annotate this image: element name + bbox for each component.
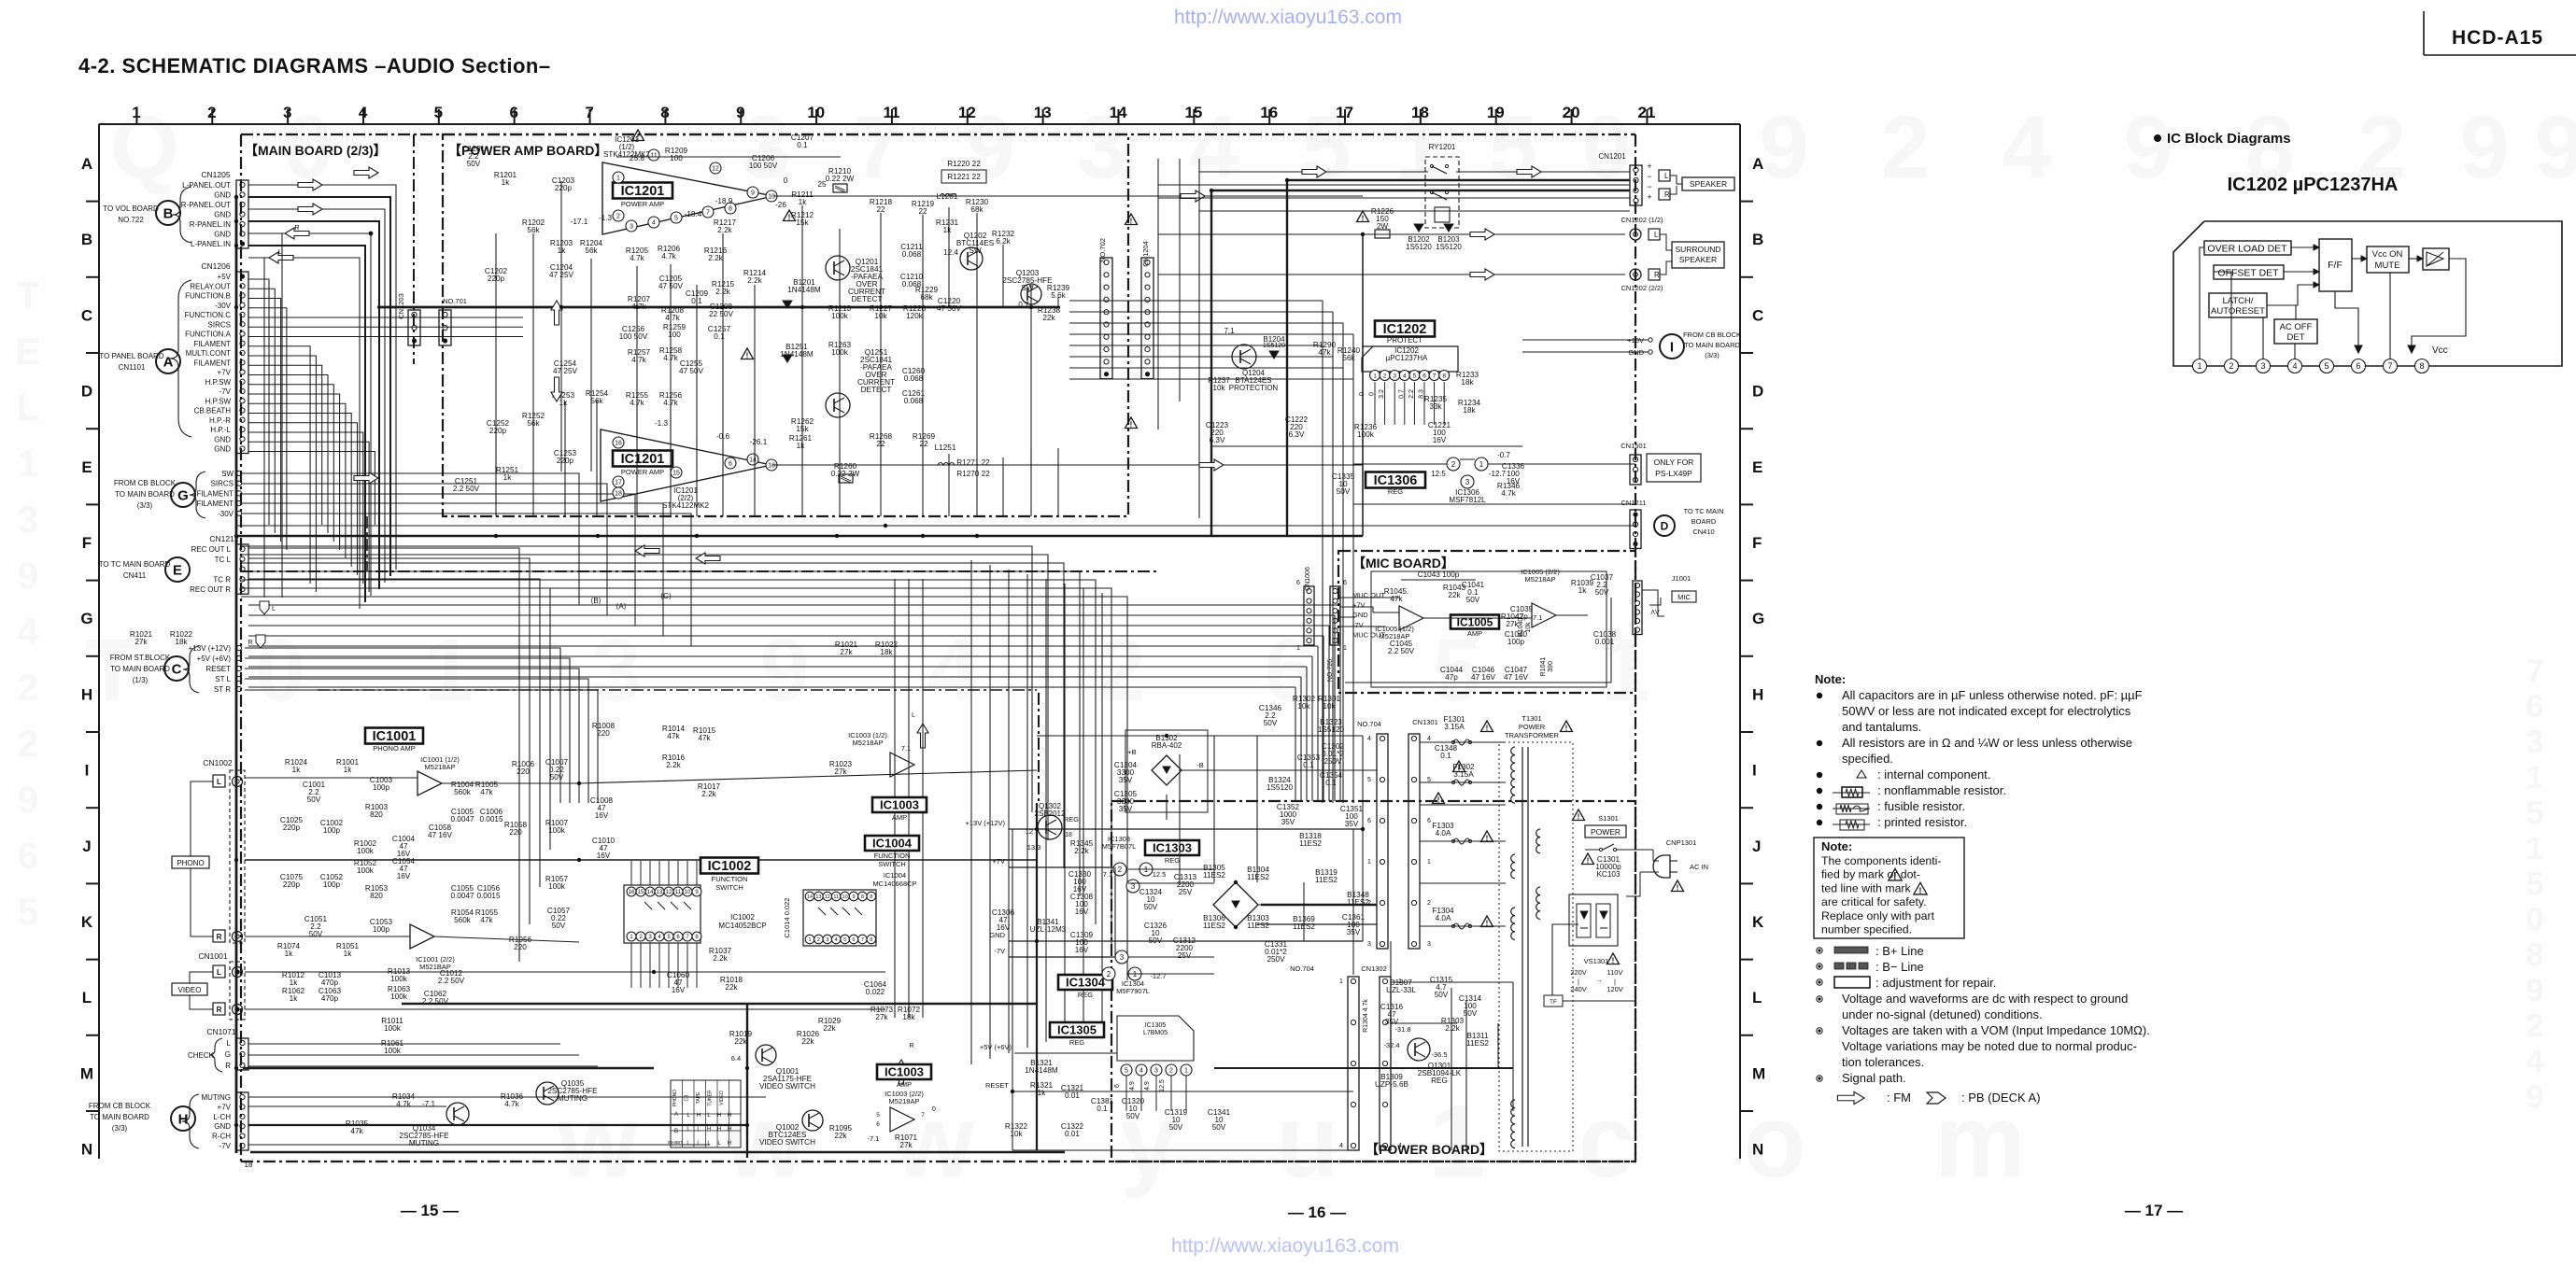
wire xyxy=(668,861,670,885)
grid row tick left xyxy=(86,428,99,429)
wire GND 1 xyxy=(248,197,390,576)
svg-text:L-PANEL.IN: L-PANEL.IN xyxy=(191,240,231,248)
svg-text:1: 1 xyxy=(2526,760,2544,795)
wire L-PANEL.IN xyxy=(248,258,360,609)
grid column tick xyxy=(1420,109,1422,124)
svg-text:7: 7 xyxy=(861,937,864,943)
wire xyxy=(248,299,281,542)
svg-text:47k: 47k xyxy=(1318,348,1331,357)
wire xyxy=(560,181,562,307)
svg-text:(3/3): (3/3) xyxy=(1705,351,1720,359)
IC1201 pin 12 xyxy=(710,162,721,174)
svg-text:3: 3 xyxy=(1427,941,1431,948)
svg-text:TC R: TC R xyxy=(213,575,231,584)
grid column tick xyxy=(438,109,440,124)
diode bridge 11ES2 xyxy=(1213,882,1258,927)
wire xyxy=(590,307,592,472)
svg-text:-18.4: -18.4 xyxy=(685,210,702,218)
wire xyxy=(686,861,688,885)
dash corner vertical xyxy=(366,516,368,571)
svg-text:50V: 50V xyxy=(1464,1009,1478,1018)
svg-text:LATCH/: LATCH/ xyxy=(2222,296,2253,306)
svg-text:0: 0 xyxy=(2526,902,2544,937)
IC1202 pin 6 xyxy=(1420,371,1430,381)
svg-text:H.P.-R: H.P.-R xyxy=(209,416,231,425)
svg-text:8: 8 xyxy=(2419,361,2424,371)
video R jack box xyxy=(213,1003,225,1015)
svg-text:16V: 16V xyxy=(397,872,411,880)
svg-text:100p: 100p xyxy=(323,880,341,889)
IC1004 pin bottom 8 xyxy=(867,935,876,944)
wire xyxy=(1125,1076,1127,1111)
svg-text:47k: 47k xyxy=(350,1127,363,1135)
IC1305 pin 2 xyxy=(1166,1064,1177,1076)
surround L box xyxy=(1649,229,1660,240)
svg-text:2: 2 xyxy=(18,724,38,765)
svg-text:The components identi-: The components identi- xyxy=(1821,854,1942,867)
wire xyxy=(1256,736,1258,882)
svg-text:IC1004: IC1004 xyxy=(884,871,906,880)
svg-text:-7.1: -7.1 xyxy=(422,1100,436,1108)
svg-text:!: ! xyxy=(1612,957,1615,965)
svg-text:RY1201: RY1201 xyxy=(1429,143,1456,151)
svg-text:50V: 50V xyxy=(552,922,566,930)
svg-text:G: G xyxy=(177,487,189,503)
R1220 R1221 parallel loop xyxy=(941,170,986,183)
IC1002 switch contacts xyxy=(644,902,652,909)
svg-text:2: 2 xyxy=(2229,361,2233,371)
svg-text:11: 11 xyxy=(675,890,682,895)
svg-text:DETECT: DETECT xyxy=(852,295,883,303)
svg-text:820: 820 xyxy=(370,892,383,900)
svg-text:220p: 220p xyxy=(283,824,301,832)
svg-text:G: G xyxy=(80,610,92,627)
note B- line xyxy=(1817,964,1822,969)
chevron L arrow xyxy=(260,601,269,614)
warn triangle 4 xyxy=(1125,214,1138,225)
wire xyxy=(248,414,351,568)
IC1003 label box xyxy=(872,797,927,812)
svg-text:u: u xyxy=(1276,1084,1338,1199)
svg-text:(1/3): (1/3) xyxy=(133,676,149,684)
MIC BOARD outline xyxy=(1338,551,1635,693)
svg-text:2.2k: 2.2k xyxy=(666,761,681,769)
svg-text:5: 5 xyxy=(1413,373,1417,379)
svg-text:R1220 22: R1220 22 xyxy=(947,160,981,168)
svg-text:TO MAIN BOARD: TO MAIN BOARD xyxy=(110,665,170,673)
grid row tick right xyxy=(1740,201,1753,203)
video jack wires xyxy=(190,972,213,983)
wire xyxy=(696,307,698,472)
svg-text:!: ! xyxy=(1130,421,1133,429)
svg-text:: B− Line: : B− Line xyxy=(1875,960,1924,974)
warn C1301 xyxy=(1582,853,1594,865)
diode B1201 xyxy=(783,301,792,308)
wire xyxy=(1443,382,1445,425)
svg-text:MUC OUT: MUC OUT xyxy=(1352,591,1385,599)
svg-text:1k: 1k xyxy=(290,994,299,1003)
svg-text:11ES2: 11ES2 xyxy=(1203,922,1225,930)
wire xyxy=(696,285,698,307)
svg-text:FROM ST.BLOCK: FROM ST.BLOCK xyxy=(110,654,171,662)
svg-text:Voltage and waveforms are dc w: Voltage and waveforms are dc with respec… xyxy=(1842,992,2128,1006)
grid row tick right xyxy=(1740,276,1753,278)
IC1305 label box xyxy=(1050,1022,1104,1037)
fuse F1303 xyxy=(1453,838,1470,844)
wire xyxy=(1257,923,1377,925)
svg-text:J: J xyxy=(82,838,91,855)
svg-text:MSF7812L: MSF7812L xyxy=(1449,496,1486,504)
wire xyxy=(1342,323,1344,803)
svg-text:16: 16 xyxy=(629,890,635,895)
IC1001 label box xyxy=(365,728,423,744)
note nonflammable resistor symbol xyxy=(1817,788,1822,794)
IC1002 pin 4 xyxy=(655,932,664,941)
wire R-PANEL.OUT xyxy=(248,209,385,583)
block pin 3 xyxy=(2257,359,2271,373)
svg-text:REC OUT L: REC OUT L xyxy=(191,545,231,554)
svg-text:9: 9 xyxy=(18,556,38,597)
svg-text:7.1: 7.1 xyxy=(1224,327,1235,335)
svg-text:100k: 100k xyxy=(357,847,375,855)
block pin 6 xyxy=(2352,359,2366,373)
wire xyxy=(1030,285,1032,307)
wire xyxy=(649,943,651,988)
warn triangle 2 xyxy=(784,210,796,221)
wire xyxy=(894,579,896,1018)
svg-text:10k: 10k xyxy=(1297,702,1310,711)
svg-text:0.068: 0.068 xyxy=(904,374,924,383)
svg-text:B: B xyxy=(81,231,92,248)
svg-text:HCD-A15: HCD-A15 xyxy=(2452,27,2543,49)
svg-text:6: 6 xyxy=(1343,580,1347,586)
svg-text:CN1501: CN1501 xyxy=(1621,442,1647,450)
svg-text:10: 10 xyxy=(842,894,848,900)
IC1004 pin bottom 2 xyxy=(814,935,824,944)
svg-text:B: B xyxy=(163,205,174,221)
svg-text:PHONO AMP: PHONO AMP xyxy=(373,744,415,753)
wire R-PANEL.IN xyxy=(248,233,371,596)
grid column tick xyxy=(1495,109,1497,124)
svg-text:N: N xyxy=(1752,1141,1763,1159)
wire xyxy=(658,943,660,988)
svg-text:REG: REG xyxy=(1069,1038,1084,1047)
svg-text:1k: 1k xyxy=(503,473,513,482)
IC1306 wires xyxy=(1353,463,1447,465)
svg-text:+5V (+6V): +5V (+6V) xyxy=(197,655,232,663)
grid column tick xyxy=(815,109,817,124)
mid dash separator xyxy=(318,689,1037,691)
IC1004 pin top 13 xyxy=(814,892,824,901)
svg-text:!: ! xyxy=(788,214,791,222)
svg-text:-7.1: -7.1 xyxy=(868,1134,880,1143)
svg-text:VIDEO: VIDEO xyxy=(719,1091,725,1105)
svg-text:3: 3 xyxy=(1465,478,1470,486)
svg-text:R-CH: R-CH xyxy=(212,1133,231,1141)
svg-text:0.1: 0.1 xyxy=(1303,761,1314,769)
svg-text:TO TC MAIN BOARD: TO TC MAIN BOARD xyxy=(99,560,171,569)
circled G from cb block xyxy=(171,483,195,507)
IC1201 pin 10 xyxy=(766,190,777,202)
svg-text:D: D xyxy=(1752,383,1763,401)
IC1004 switch contacts xyxy=(818,908,826,915)
mute amp box xyxy=(2423,248,2449,270)
svg-text:http://www.xiaoyu163.com: http://www.xiaoyu163.com xyxy=(1171,1235,1399,1257)
svg-text:2.2 50V: 2.2 50V xyxy=(1388,647,1415,655)
AC OFF DET box xyxy=(2274,319,2317,344)
arrow surround 1 xyxy=(1470,229,1494,240)
svg-text:220: 220 xyxy=(514,943,527,951)
svg-text:4.7k: 4.7k xyxy=(630,254,644,262)
grid row tick left xyxy=(86,580,99,582)
svg-text:ΛV: ΛV xyxy=(1650,610,1660,616)
speaker L box xyxy=(1659,170,1670,181)
power switch symbol xyxy=(1585,849,1600,851)
op-amp IC1201 2/2 triangle xyxy=(601,429,771,501)
note fusible resistor symbol xyxy=(1817,804,1822,809)
wire xyxy=(532,422,534,516)
svg-text:STK4122MK2: STK4122MK2 xyxy=(662,501,709,510)
svg-text:13: 13 xyxy=(657,890,663,895)
svg-text:10k: 10k xyxy=(874,312,887,320)
svg-text:H.P.-L: H.P.-L xyxy=(210,426,231,434)
wire xyxy=(1155,1076,1157,1111)
svg-text:9: 9 xyxy=(751,190,755,197)
wire xyxy=(1390,941,1392,1068)
svg-text:100: 100 xyxy=(670,154,683,162)
svg-text:L: L xyxy=(217,968,221,977)
svg-text:0.0047: 0.0047 xyxy=(450,815,474,824)
fuse F1302 xyxy=(1453,780,1470,785)
svg-text:【MIC BOARD】: 【MIC BOARD】 xyxy=(1352,556,1454,570)
svg-text:27k: 27k xyxy=(834,767,847,776)
svg-text:0.0015: 0.0015 xyxy=(476,892,500,900)
svg-text:: printed resistor.: : printed resistor. xyxy=(1877,815,1967,829)
grid row tick right xyxy=(1740,352,1753,354)
wire xyxy=(696,439,698,516)
svg-text:4.7k: 4.7k xyxy=(504,1100,519,1108)
svg-text:1k: 1k xyxy=(799,198,808,206)
svg-text:CN1301: CN1301 xyxy=(1412,718,1438,726)
svg-text:4.7k: 4.7k xyxy=(396,1100,411,1108)
wire xyxy=(1322,301,1323,803)
svg-text:AUTORESET: AUTORESET xyxy=(2211,306,2265,317)
svg-text:5: 5 xyxy=(18,892,38,933)
IC1002 pin 11 xyxy=(673,887,683,896)
svg-text:22k: 22k xyxy=(734,1037,747,1046)
svg-text:IC Block Diagrams: IC Block Diagrams xyxy=(2167,131,2291,147)
svg-text:120V: 120V xyxy=(1606,985,1623,993)
warn triangle 3 xyxy=(742,348,754,359)
svg-text:FILAMENT: FILAMENT xyxy=(196,489,234,498)
wire xyxy=(1069,333,1353,335)
wire xyxy=(1420,781,1506,783)
circled B to vol board xyxy=(156,201,180,225)
svg-text:MUTING: MUTING xyxy=(558,1094,587,1103)
up arrow xyxy=(551,301,562,325)
feedback top wire xyxy=(616,156,841,158)
block pin 1 xyxy=(2193,359,2207,373)
svg-text:4: 4 xyxy=(652,220,656,227)
IC1002 pin 16 xyxy=(627,887,636,896)
svg-text:50V: 50V xyxy=(1435,991,1449,999)
LATCH AUTORESET box xyxy=(2209,293,2267,317)
svg-text:SWITCH: SWITCH xyxy=(878,860,906,868)
svg-text:14: 14 xyxy=(749,458,757,464)
svg-text:VIDEO SWITCH: VIDEO SWITCH xyxy=(759,1138,815,1147)
svg-text:!: ! xyxy=(1919,886,1922,895)
svg-text:GND: GND xyxy=(989,931,1005,939)
wire xyxy=(1413,382,1415,425)
svg-text:470p: 470p xyxy=(321,994,339,1003)
IC1202 block outline xyxy=(2173,221,2562,366)
svg-text:POWER AMP: POWER AMP xyxy=(621,468,664,476)
note line xyxy=(1817,1076,1822,1081)
svg-text:1S5120: 1S5120 xyxy=(1267,783,1294,792)
IC1303 label box xyxy=(1145,840,1199,855)
svg-text:2.2k: 2.2k xyxy=(708,254,723,262)
svg-text:A: A xyxy=(1752,155,1763,173)
wire xyxy=(922,579,924,1018)
svg-text:M5F7907L: M5F7907L xyxy=(1116,987,1150,995)
svg-text:TO MAIN BOARD: TO MAIN BOARD xyxy=(115,490,175,499)
svg-text:1: 1 xyxy=(1339,978,1343,985)
svg-text:R: R xyxy=(217,933,222,941)
svg-text:M5218AP: M5218AP xyxy=(889,1097,920,1105)
wire xyxy=(1362,736,1364,941)
svg-text:14: 14 xyxy=(807,894,813,900)
svg-text:5: 5 xyxy=(2526,866,2544,902)
svg-text:M5218AP: M5218AP xyxy=(853,739,884,747)
svg-text:SWITCH: SWITCH xyxy=(715,883,743,892)
wire xyxy=(242,503,663,636)
svg-text:ted line with mark: ted line with mark xyxy=(1821,881,1912,894)
power board wires right xyxy=(1391,981,1513,983)
voltage selector VS1301 xyxy=(1569,894,1618,946)
svg-text:100k: 100k xyxy=(1357,430,1375,439)
svg-text:S1301: S1301 xyxy=(1598,814,1619,823)
SURROUND SPEAKER box xyxy=(1672,242,1724,268)
wire xyxy=(922,215,924,307)
Q1301 transistor xyxy=(1408,1038,1430,1061)
HCD-A15 model corner box xyxy=(2423,11,2425,55)
svg-text:47 50V: 47 50V xyxy=(658,282,683,290)
svg-text:-26: -26 xyxy=(775,201,786,209)
svg-text:-7V: -7V xyxy=(1352,621,1364,629)
svg-text:: fusible resistor.: : fusible resistor. xyxy=(1877,799,1965,813)
svg-text:47k: 47k xyxy=(480,788,493,796)
svg-text:L-PANEL.OUT: L-PANEL.OUT xyxy=(182,181,231,190)
wire xyxy=(248,645,1318,647)
svg-text:CN1203: CN1203 xyxy=(397,293,405,319)
svg-text:RBA-402: RBA-402 xyxy=(1152,741,1182,750)
svg-text:H.P.SW: H.P.SW xyxy=(205,378,232,387)
svg-text:4: 4 xyxy=(1139,1068,1143,1075)
svg-text:INHIBIT: INHIBIT xyxy=(668,1140,683,1145)
svg-text:100p: 100p xyxy=(373,783,390,792)
svg-text:4.7k: 4.7k xyxy=(663,399,678,407)
svg-text:IC1003: IC1003 xyxy=(880,798,919,812)
svg-text:3: 3 xyxy=(1154,1068,1158,1075)
svg-text:R: R xyxy=(225,1062,231,1070)
wire relay to CN1201 1 xyxy=(1456,171,1630,173)
svg-text:IC1201: IC1201 xyxy=(621,184,665,199)
IC1002 pin 3 xyxy=(645,932,655,941)
center thick vertical bus xyxy=(746,1004,748,1158)
svg-text:4.7k: 4.7k xyxy=(630,399,644,407)
svg-text:FILAMENT: FILAMENT xyxy=(193,340,231,348)
wire xyxy=(1069,322,1343,324)
svg-text:-36.5: -36.5 xyxy=(1431,1050,1447,1059)
svg-text:100p: 100p xyxy=(1507,638,1525,646)
wire xyxy=(1030,448,1032,516)
wire xyxy=(242,484,607,615)
svg-text:22: 22 xyxy=(876,205,885,214)
svg-text:100k: 100k xyxy=(831,348,849,357)
grid row tick left xyxy=(86,655,99,657)
svg-text:56k: 56k xyxy=(1342,354,1355,362)
output wire lower xyxy=(771,464,1363,466)
svg-text:5: 5 xyxy=(2526,795,2544,831)
svg-text:A: A xyxy=(163,354,174,370)
svg-text:!: ! xyxy=(1362,215,1365,223)
svg-text:1: 1 xyxy=(1343,645,1347,652)
IC1305 pin 4 xyxy=(1136,1064,1147,1076)
svg-text:3: 3 xyxy=(630,224,633,231)
svg-text:6: 6 xyxy=(876,1121,880,1128)
svg-text:-B: -B xyxy=(1196,761,1204,769)
svg-text:R-PANEL.IN: R-PANEL.IN xyxy=(190,220,232,229)
grid column tick xyxy=(514,109,516,124)
wire xyxy=(1332,312,1334,803)
svg-text:: adjustment for repair.: : adjustment for repair. xyxy=(1875,976,1996,990)
wire xyxy=(1128,956,1214,958)
svg-text:D: D xyxy=(81,383,92,401)
grid row tick right xyxy=(1740,1035,1753,1036)
wire xyxy=(245,648,560,803)
wire xyxy=(248,686,1295,688)
IC1201 pin 6 xyxy=(725,458,736,469)
svg-text:→: → xyxy=(1595,976,1603,984)
svg-text:4: 4 xyxy=(835,937,838,943)
svg-text:REC OUT R: REC OUT R xyxy=(190,585,231,594)
IC1201 pin 16 xyxy=(613,437,624,448)
main left vertical bus xyxy=(235,197,238,1153)
svg-text:1k: 1k xyxy=(292,766,302,774)
wire xyxy=(839,307,841,472)
svg-text:22 50V: 22 50V xyxy=(709,310,733,318)
svg-text:SPEAKER: SPEAKER xyxy=(1690,179,1727,189)
IC1201 pin 13 xyxy=(766,459,777,471)
block pin 5 xyxy=(2320,359,2334,373)
phono R jack box xyxy=(213,930,225,942)
wire xyxy=(1179,786,1181,885)
svg-text:POWER: POWER xyxy=(1591,827,1621,837)
svg-text:8: 8 xyxy=(861,894,864,900)
svg-text:220p: 220p xyxy=(555,184,573,192)
svg-text:R: R xyxy=(1664,190,1670,199)
wire xyxy=(754,307,756,472)
svg-text:GND: GND xyxy=(214,445,231,454)
wire xyxy=(1069,356,1333,358)
wire xyxy=(1328,711,1330,754)
svg-text:22: 22 xyxy=(918,207,927,216)
svg-text:TAPE: TAPE xyxy=(696,1091,701,1104)
svg-text:POWER: POWER xyxy=(1519,723,1546,731)
svg-text:3: 3 xyxy=(826,937,828,943)
+B wire xyxy=(1181,769,1377,771)
main board lower dash separator xyxy=(241,570,1158,572)
